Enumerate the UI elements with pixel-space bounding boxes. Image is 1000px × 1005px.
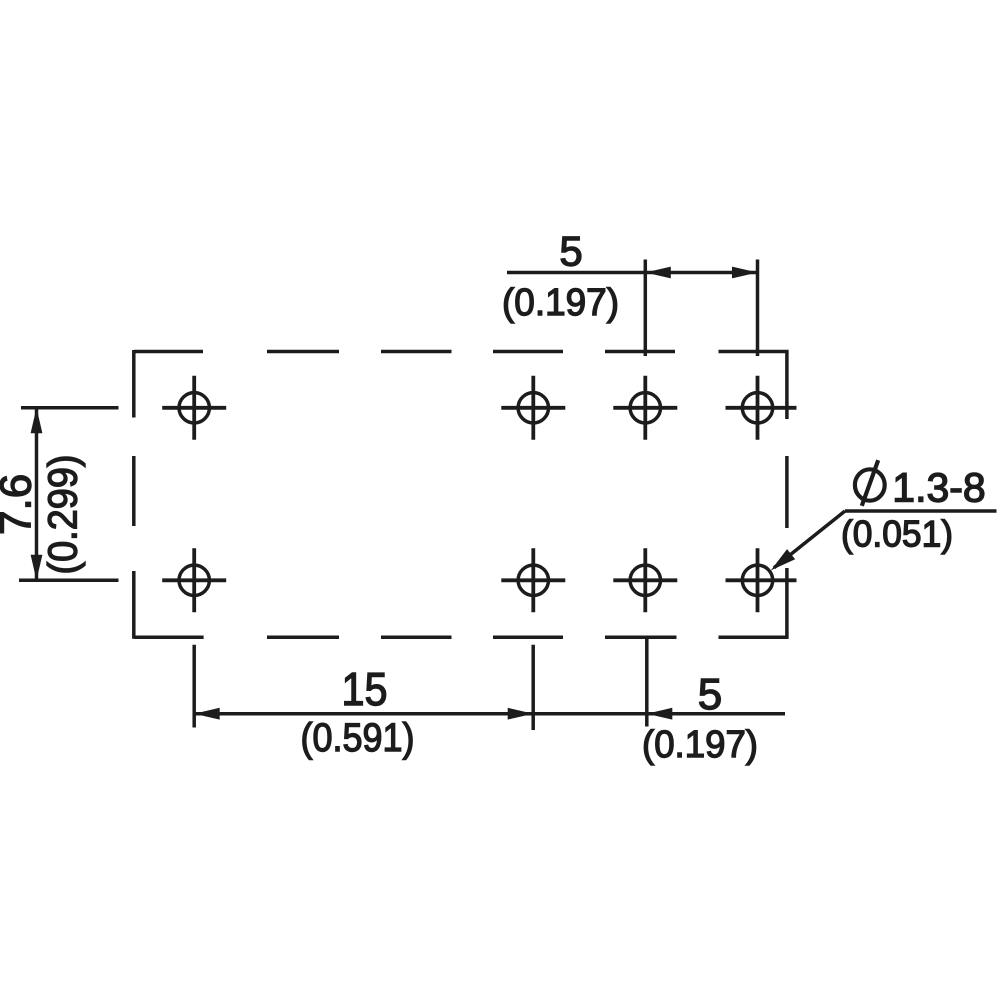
bottom dimension arrow (5) bbox=[647, 708, 673, 720]
leader arrowhead bbox=[771, 549, 795, 570]
leader line horizontal (hole size callout) bbox=[845, 509, 997, 513]
svg-text:(0.197): (0.197) bbox=[642, 724, 758, 766]
svg-text:15: 15 bbox=[342, 663, 388, 715]
top dimension arrow right bbox=[732, 267, 758, 279]
top dimension 5 (0.197): dimension line bbox=[507, 271, 758, 275]
hole H5 (bottom row, col 1) bbox=[162, 548, 226, 612]
top dimension 5 (0.197): extension line at col 4 bbox=[756, 260, 760, 357]
hole H4 (top row, col 4) bbox=[726, 376, 797, 440]
diameter symbol phi bbox=[855, 460, 885, 506]
hole H8 (bottom row, col 4) bbox=[726, 548, 797, 612]
svg-text:(0.299): (0.299) bbox=[40, 455, 86, 575]
hole H2 (top row, col 2) bbox=[501, 376, 565, 440]
svg-text:7.6: 7.6 bbox=[0, 474, 41, 535]
leader line diagonal bbox=[774, 511, 845, 568]
bottom dimension line (shared by 15 and 5) bbox=[194, 712, 785, 716]
dashed outline left edge bbox=[132, 350, 136, 639]
left dimension 7.6 (0.299): bottom extension line bbox=[19, 579, 119, 583]
bottom dimension 15 (0.591): extension line at col 2 bbox=[531, 645, 535, 730]
bottom dimension 15 (0.591): extension line at col 1 bbox=[192, 645, 196, 728]
hole H1 (top row, col 1) bbox=[162, 376, 226, 440]
svg-text:5: 5 bbox=[698, 670, 722, 719]
left dimension arrow down bbox=[31, 555, 43, 581]
hole H6 (bottom row, col 2) bbox=[501, 548, 565, 612]
svg-text:5: 5 bbox=[559, 228, 582, 275]
bottom dimension arrow right (15) bbox=[508, 708, 534, 720]
bottom dimension arrow left (15) bbox=[194, 708, 220, 720]
svg-text:1.3-8: 1.3-8 bbox=[892, 465, 985, 511]
bottom dimension 5 (0.197): extension line at col 3 bbox=[645, 639, 649, 727]
svg-text:(0.197): (0.197) bbox=[502, 282, 619, 324]
dashed outline top edge bbox=[134, 350, 789, 354]
left dimension arrow up bbox=[31, 408, 43, 434]
dashed outline right edge bbox=[785, 350, 789, 639]
left dimension 7.6 (0.299): top extension line bbox=[21, 406, 119, 410]
hole H3 (top row, col 3) bbox=[613, 376, 677, 440]
hole H7 (bottom row, col 3) bbox=[613, 548, 677, 612]
left dimension 7.6 (0.299): dimension line bbox=[35, 408, 39, 581]
svg-text:(0.051): (0.051) bbox=[841, 514, 953, 555]
dashed outline bottom edge bbox=[134, 636, 789, 640]
top dimension 5 (0.197): extension line at col 3 bbox=[644, 260, 648, 357]
top dimension arrow left bbox=[645, 267, 671, 279]
svg-text:(0.591): (0.591) bbox=[301, 716, 415, 760]
